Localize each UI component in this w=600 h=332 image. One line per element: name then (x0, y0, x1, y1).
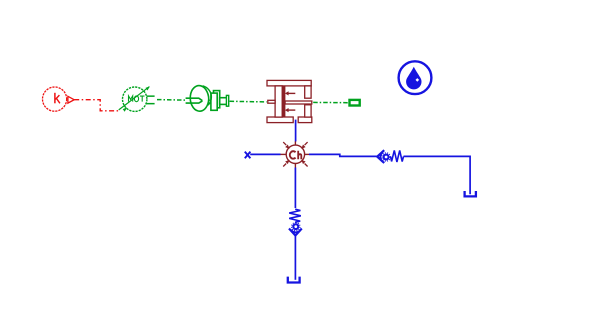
signal wire k to MOT (74, 100, 118, 111)
thermal source (right) (465, 191, 476, 196)
port marker x (245, 152, 251, 159)
thermal fluid properties (drop icon) (399, 61, 432, 94)
shaft wire clutch to end (313, 101, 348, 103)
heat wire Ch to right convection (309, 154, 377, 156)
heat wire Ch down to vertical convection (294, 168, 296, 209)
heat wire convection to right source (404, 156, 471, 194)
thermal node Ch (280, 141, 309, 167)
shaft wire MOT to load (157, 99, 186, 102)
convective exchange (vertical) (289, 209, 302, 235)
clutch CL1 (friction plates) (267, 80, 312, 122)
rotary load (flywheel with shaft) (186, 86, 229, 112)
thermal source (bottom) (288, 277, 300, 283)
prime mover U1 MOT (119, 86, 155, 112)
signal constant source K1 (43, 87, 75, 111)
heat wire clutch to Ch node (295, 120, 297, 142)
heat wire x to Ch node (250, 153, 280, 155)
rotary fixed end (zero speed) (350, 100, 360, 106)
heat wire vertical convection to bottom source (294, 236, 296, 280)
convective exchange (horizontal) (377, 150, 403, 163)
shaft wire load to clutch (230, 100, 267, 103)
